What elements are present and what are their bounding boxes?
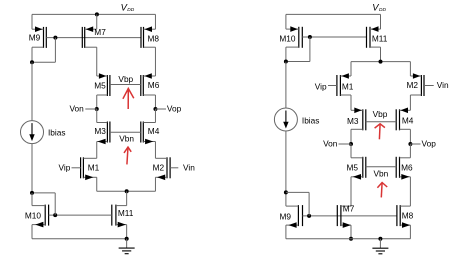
- svg-text:Ibias: Ibias: [302, 115, 320, 125]
- svg-text:M2: M2: [407, 80, 419, 90]
- svg-text:M6: M6: [148, 80, 160, 90]
- svg-text:M4: M4: [148, 126, 160, 136]
- svg-text:DD: DD: [127, 7, 134, 13]
- svg-text:M9: M9: [279, 211, 291, 221]
- svg-text:Vin: Vin: [183, 162, 195, 172]
- svg-text:M3: M3: [94, 126, 106, 136]
- svg-text:M8: M8: [402, 210, 414, 220]
- svg-text:M5: M5: [346, 162, 358, 172]
- svg-text:M7: M7: [94, 27, 106, 37]
- svg-text:DD: DD: [379, 7, 386, 13]
- svg-text:M7: M7: [343, 203, 355, 213]
- svg-text:M6: M6: [401, 162, 413, 172]
- svg-text:M10: M10: [279, 33, 296, 43]
- svg-text:Vbn: Vbn: [374, 169, 389, 179]
- svg-text:Vop: Vop: [167, 104, 182, 114]
- svg-text:Vin: Vin: [437, 80, 449, 90]
- svg-text:M1: M1: [88, 163, 100, 173]
- svg-text:Vop: Vop: [422, 139, 437, 149]
- svg-text:M9: M9: [29, 33, 41, 43]
- svg-text:Von: Von: [69, 104, 84, 114]
- svg-text:Ibias: Ibias: [48, 127, 66, 137]
- svg-text:M5: M5: [94, 81, 106, 91]
- svg-text:Vbn: Vbn: [119, 134, 134, 144]
- svg-text:M4: M4: [402, 115, 414, 125]
- svg-text:M3: M3: [347, 116, 359, 126]
- svg-text:Vip: Vip: [315, 82, 327, 92]
- svg-text:M8: M8: [148, 34, 160, 44]
- svg-text:M1: M1: [342, 81, 354, 91]
- svg-text:M10: M10: [25, 211, 42, 221]
- svg-text:M11: M11: [372, 34, 388, 44]
- svg-text:Vbp: Vbp: [118, 74, 133, 84]
- svg-text:Vbp: Vbp: [373, 109, 388, 119]
- svg-text:Von: Von: [323, 139, 338, 149]
- svg-text:M11: M11: [118, 208, 134, 218]
- svg-text:M2: M2: [153, 162, 165, 172]
- svg-text:Vip: Vip: [59, 162, 71, 172]
